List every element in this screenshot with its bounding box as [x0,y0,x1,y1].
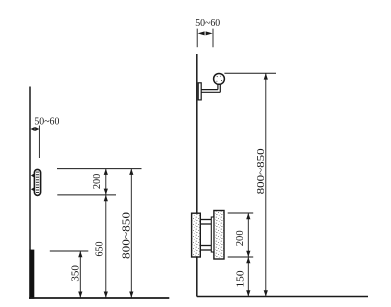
left 50~60 double arrow [31,127,40,131]
svg-text:800~850: 800~850 [122,212,133,259]
left baseboard thick bar [29,250,34,299]
left floor line [29,297,169,299]
radiator tube bottom [200,245,211,247]
right extension line right [212,29,214,48]
left extension line [38,126,40,159]
radiator right bar [214,211,224,260]
right wall line [196,54,198,297]
right floor line [197,296,368,298]
right 50~60 double arrow [198,31,213,35]
switch mounting bracket top [31,173,35,177]
right tick line top of radiator [228,212,254,214]
left dim line 200/650 [105,169,107,298]
svg-text:200: 200 [92,174,103,190]
left lower tick line [50,250,89,252]
left wall line [29,87,31,299]
left middle tick line [57,194,116,196]
hook arm [201,89,218,91]
left dim line 350 [79,251,81,298]
svg-text:800~850: 800~850 [256,148,267,194]
right dim line 800~850 [265,73,267,296]
radiator left bar [192,213,201,257]
left top tick line [57,168,142,170]
svg-text:200: 200 [235,230,246,246]
hook knob circle [214,74,225,85]
radiator flange [211,217,214,252]
svg-text:150: 150 [236,271,247,288]
svg-text:650: 650 [95,242,106,257]
switch mounting bracket bottom [31,187,35,191]
right dim line 200/150 [247,213,249,297]
svg-text:50~60: 50~60 [34,117,59,128]
right extension line left [196,29,198,48]
hook wall plate [198,83,201,100]
switch body [34,169,40,195]
svg-text:350: 350 [71,265,82,282]
right tick line bottom of radiator [228,256,254,258]
right top tick line [224,72,276,74]
left dim line 800~850 [130,169,132,298]
radiator tube top [200,219,211,221]
svg-text:50~60: 50~60 [195,18,220,29]
